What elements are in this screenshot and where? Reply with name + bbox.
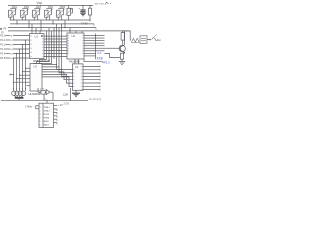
junction dots motor tops [13, 88, 26, 89]
wire U2 right pin 9 [84, 55, 96, 57]
wire connector edge [95, 34, 97, 60]
wire data row 4 [44, 44, 67, 46]
wire grid column 6 [58, 28, 60, 67]
wire staircase 4 [42, 72, 72, 80]
pullup unit 1: capacitor C1 [9, 8, 17, 20]
svg-text:2: 2 [40, 111, 41, 113]
svg-text:d1~d2 dj-dj: d1~d2 dj-dj [89, 98, 101, 101]
IC U5 (clock) [39, 103, 54, 127]
wire U3 left pin 4 [17, 78, 31, 80]
wire motor column 2 [16, 54, 18, 91]
potentiometer RP1 [66, 6, 73, 21]
svg-text:1: 1 [40, 107, 41, 109]
svg-text:XTAL2: XTAL2 [44, 110, 51, 113]
transistor Q1 [119, 45, 125, 54]
resistor R7 [121, 31, 124, 46]
pullup unit 3: resistor R3 [33, 6, 40, 21]
svg-text:3: 3 [40, 114, 41, 116]
svg-text:6: 6 [40, 125, 41, 127]
wire U2 right pin 5 [84, 45, 96, 47]
wire bottom rail [1, 99, 88, 101]
wire staircase 6 [42, 77, 72, 87]
wire U4 right pin 7 [83, 85, 100, 87]
node stub left [10, 74, 14, 76]
wire data row 3 [44, 41, 67, 43]
wire U4 right pin 2 [83, 69, 100, 71]
wire data row 8 [44, 55, 67, 57]
wire U5 right pin 4 [54, 116, 58, 118]
wire bus A [10, 24, 94, 26]
transistor Q2 driver cluster [38, 88, 53, 100]
wire U4 right pin 5 [83, 79, 100, 81]
pin row 5 with label [0, 53, 29, 56]
wire U5 right pin 1 [54, 105, 58, 107]
pin row 3 with label [0, 44, 29, 47]
wire U2 right pin 7 [84, 50, 96, 52]
svg-text:P1.1: P1.1 [0, 39, 6, 42]
wire drop unit5 to bus [64, 20, 66, 28]
junction dot U5 rail [46, 100, 47, 101]
svg-text:U3: U3 [34, 65, 38, 69]
svg-text:74LS245: 74LS245 [69, 59, 81, 63]
wire U5 right pin 5 [54, 119, 58, 121]
pin row 1 with label [0, 35, 29, 38]
capacitor C6 electrolytic [78, 6, 85, 14]
svg-text:P1.5: P1.5 [0, 57, 6, 60]
IC U2 (latch) [67, 33, 84, 59]
wire drop unit1 to bus [16, 20, 18, 24]
wire motor column 4 [22, 45, 24, 91]
wire bus B [8, 28, 96, 30]
wire outer stub 4 [96, 42, 105, 44]
wire grid column 7 [61, 24, 63, 70]
svg-text:A.A: A.A [97, 51, 102, 55]
svg-text:1 MHz: 1 MHz [25, 105, 33, 108]
wire outer stub 3 [96, 40, 105, 42]
motor M1 coil 4 [21, 91, 25, 95]
ground under U4 [72, 90, 80, 96]
svg-text:+ 2V: + 2V [58, 104, 63, 107]
wire U3 left pin 5 [14, 81, 31, 83]
wire U3 left pin 6 [27, 85, 31, 87]
wire collector up [125, 31, 131, 45]
svg-text:U4: U4 [75, 65, 79, 69]
pullup unit 4: capacitor C4 [45, 8, 53, 20]
wire outer stub 6 [96, 47, 105, 49]
wire drop unit3 to bus [40, 20, 42, 31]
svg-text:out: out [158, 39, 162, 42]
pullup unit 1: resistor R1 [9, 6, 16, 21]
wire staircase 3 [42, 69, 72, 76]
wire grid column 1 [40, 31, 47, 64]
pullup unit 2: capacitor C2 [21, 8, 29, 20]
svg-text:P1.2: P1.2 [0, 44, 6, 47]
junction dots grid [46, 36, 62, 57]
wire bus C [8, 30, 130, 32]
output wave icon [152, 35, 158, 41]
wire drop into U2 top pin 2 [75, 31, 77, 33]
svg-text:Vcc: Vcc [37, 1, 43, 5]
svg-text:12M: 12M [63, 94, 68, 97]
wire U5 right pin 3 [54, 112, 58, 114]
resistor R8 [120, 53, 123, 61]
wire drop into U2 top pin 1 [69, 28, 71, 33]
junction dots columns to rows [13, 39, 26, 58]
junction dot rail [70, 100, 71, 101]
wire U4 right pin 3 [83, 72, 100, 74]
wire U5 left join [35, 106, 37, 109]
wire motor column 3 [19, 49, 21, 91]
IC U4 (output driver) [72, 64, 83, 90]
svg-text:ALE0: ALE0 [44, 120, 50, 123]
svg-text:XTAL1: XTAL1 [44, 106, 51, 109]
ground under C6 [80, 13, 86, 16]
wire data row 6 [44, 50, 67, 52]
pullup unit 5: capacitor C5 [57, 8, 65, 20]
node marker left edge [0, 28, 1, 30]
wire U4 right pin 8 [83, 89, 100, 91]
wire data row 1 [44, 35, 67, 37]
svg-text:EA21: EA21 [44, 124, 50, 127]
pullup unit 5: resistor R5 [57, 6, 64, 21]
wire U5 right pin 2 [54, 109, 58, 111]
wire U5 right pin 6 [54, 123, 58, 125]
wire U2 bottom drop 1 [74, 59, 76, 64]
junction dots U3 left pins [13, 68, 26, 83]
junction dot collector [124, 30, 125, 31]
junction dot R7 top [122, 30, 123, 31]
svg-text:U2: U2 [72, 34, 76, 38]
wire grid column 3 [34, 31, 52, 64]
wire staircase 1 [42, 64, 72, 69]
wire grid column 4 [53, 28, 55, 59]
wire data row 2 [44, 38, 67, 40]
svg-text:P1.3: P1.3 [0, 48, 6, 51]
junction dots on bottom wire [10, 19, 69, 20]
junction dots U2 pins [95, 35, 96, 56]
wire U2 right pin 1 [84, 35, 96, 37]
signal source icon [131, 38, 139, 42]
wire outer stub 5 [96, 45, 105, 47]
svg-text:U1: U1 [35, 35, 39, 39]
wire drop into U1 top pin 3 [39, 31, 41, 34]
motor M1 common bar [15, 97, 24, 99]
wire VCC rail [8, 5, 93, 7]
junction dots on rail [82, 5, 90, 6]
wire drop into U1 top pin 1 [31, 24, 33, 34]
wire U5 left pin 2 [36, 108, 39, 110]
wire outer stub 1 [96, 35, 105, 37]
wire data row 5 [44, 47, 67, 49]
IC U3 (driver) [30, 64, 42, 92]
wire staircase 2 [42, 67, 72, 73]
wire unit common bottom [10, 19, 90, 21]
pin number marks inside U1 [30, 36, 44, 57]
wire U2 bottom drop 2 [78, 59, 80, 64]
wire base link [105, 47, 121, 49]
junction dot stub [13, 74, 14, 75]
IC U1 (MCU) [30, 34, 45, 59]
junction dots staircase [56, 64, 62, 70]
svg-text:P1.0: P1.0 [0, 35, 6, 38]
wire grid column 5 [56, 24, 58, 65]
svg-text:P1.4: P1.4 [0, 53, 6, 56]
wire U5 left pin 1 [36, 105, 39, 107]
wire staircase down link [70, 88, 72, 100]
wire U5 top to rail [46, 100, 48, 103]
pullup unit 2: resistor R2 [21, 6, 28, 21]
wire drop into U1 top pin 2 [35, 28, 37, 34]
wire motor converge right [21, 95, 24, 97]
wire motor column 1 [13, 58, 15, 91]
pin row 2 with label [0, 39, 29, 42]
wire drop unit2 to bus [28, 20, 30, 28]
pin row 4 with label [0, 48, 29, 51]
wire Q2 to rail [52, 92, 54, 100]
wire U2 right pin 8 [84, 52, 96, 54]
wire U4 right pin 1 [83, 66, 100, 68]
svg-text:PSEN: PSEN [44, 118, 50, 120]
wire emitter link lower [105, 53, 121, 57]
wire U2 right pin 4 [84, 42, 96, 44]
wire U4 right pin 6 [83, 82, 100, 84]
block box amplifier [140, 36, 147, 44]
motor M1 coil 1 [12, 91, 16, 95]
wire U4 top net [84, 59, 103, 63]
junction dots bus drops [16, 19, 90, 31]
pullup unit 3: capacitor C3 [33, 8, 41, 20]
motor M1 coil 2 [15, 91, 19, 95]
wire motor converge left [14, 95, 17, 97]
wire U3 left pin 2 [23, 71, 31, 73]
svg-text:XX8: XX8 [97, 57, 103, 61]
wire motor column 5 [25, 40, 27, 91]
wire U3 left pin 3 [20, 74, 31, 76]
wire drop into U2 top pin 3 [81, 31, 83, 33]
wire emitter down [122, 51, 125, 54]
wire U4 right pin 4 [83, 76, 100, 78]
svg-text:P2.0: P2.0 [104, 61, 110, 65]
pullup unit 4: resistor R4 [45, 6, 52, 21]
wire U2 right pin 6 [84, 47, 96, 49]
wire U3 left pin 1 [26, 67, 31, 69]
svg-text:RST8: RST8 [44, 114, 50, 116]
label net name right of rail [95, 2, 111, 4]
wire U2 right pin 3 [84, 40, 96, 42]
wire grid column 2 [37, 28, 50, 64]
wire U2 right pin 2 [84, 37, 96, 39]
pin row 6 with label [0, 57, 29, 60]
wire motor common to rail [18, 99, 20, 101]
resistor R6 [88, 6, 91, 22]
ground under R8 [119, 61, 125, 64]
wire data row 7 [44, 53, 67, 55]
junction dots U4 left pins [72, 69, 73, 87]
arrow out of block [147, 39, 151, 41]
svg-text:5: 5 [40, 121, 41, 123]
svg-text:2 /2V: 2 /2V [64, 103, 70, 106]
svg-text:4: 4 [40, 118, 41, 120]
wire staircase 5 [42, 74, 72, 83]
wire outer stub 7 [96, 50, 105, 52]
wire outer stub 2 [96, 37, 105, 39]
svg-text:+: + [78, 7, 80, 11]
svg-text:4.7K: 4.7K [40, 88, 45, 90]
wire drop unit4 to bus [52, 20, 54, 24]
pin number marks inside U2 [67, 35, 84, 54]
motor M1 coil 3 [18, 91, 22, 95]
